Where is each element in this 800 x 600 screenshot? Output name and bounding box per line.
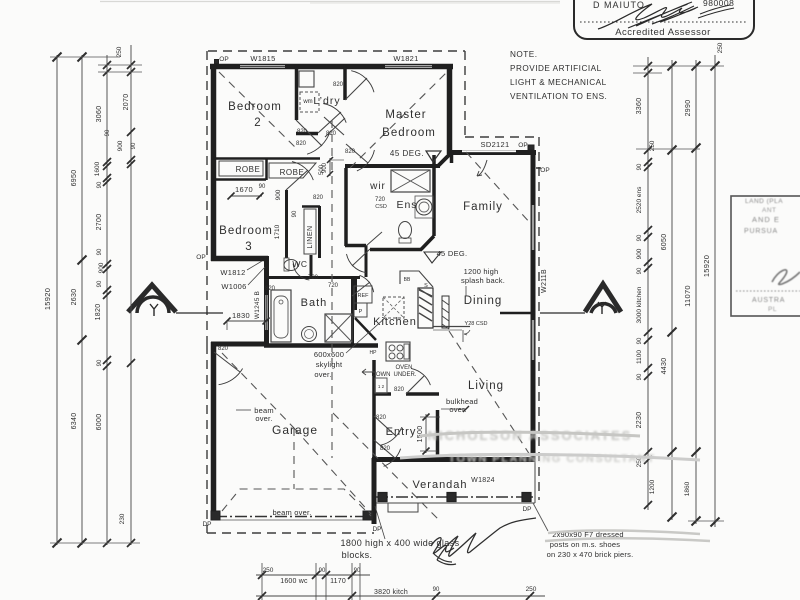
- outer wall garage left: [211, 342, 217, 519]
- svg-text:980008: 980008: [703, 0, 734, 8]
- svg-text:W1245 B: W1245 B: [254, 291, 261, 319]
- stamp dotted line: [580, 21, 748, 23]
- roof overhang dashed outline right side: [538, 137, 540, 500]
- outer wall garage top: [211, 342, 268, 347]
- verandah slab edge: [376, 502, 535, 504]
- svg-text:820: 820: [333, 82, 344, 88]
- door wir leaf: [366, 232, 382, 246]
- svg-text:1500: 1500: [417, 426, 424, 443]
- garage bottom beam-over dash-dot line: [215, 516, 372, 518]
- svg-text:6000: 6000: [96, 414, 103, 431]
- outer wall living bottom: [372, 457, 535, 462]
- svg-text:SD2121: SD2121: [481, 140, 510, 149]
- svg-text:45 DEG.: 45 DEG.: [390, 149, 424, 158]
- svg-text:820: 820: [380, 446, 391, 452]
- svg-text:90: 90: [637, 234, 643, 241]
- svg-text:OVEN: OVEN: [395, 365, 412, 371]
- right dimension line R1 fine dims: [647, 57, 649, 510]
- svg-text:PROVIDE ARTIFICIAL: PROVIDE ARTIFICIAL: [510, 64, 602, 73]
- robe row top wall: [215, 157, 320, 160]
- hip dashed entry-verandah diagonal: [333, 413, 438, 519]
- svg-text:1200 high: 1200 high: [464, 267, 499, 276]
- robe row bottom wall: [215, 178, 266, 181]
- svg-text:2990: 2990: [685, 100, 692, 117]
- svg-text:820: 820: [345, 149, 356, 155]
- dim 1830 recess: [227, 320, 268, 322]
- svg-text:over.: over.: [314, 370, 331, 379]
- svg-text:90: 90: [97, 248, 103, 255]
- ens toilet: [399, 222, 412, 239]
- robe divider: [265, 158, 268, 180]
- kitchen bench diagonal corner: [355, 318, 376, 340]
- glass blocks leader line: [375, 506, 385, 539]
- svg-text:W1824: W1824: [471, 477, 495, 484]
- wall ldry / master divider: [343, 64, 347, 100]
- svg-text:Accredited Assessor: Accredited Assessor: [615, 27, 711, 38]
- svg-text:PURSUA: PURSUA: [744, 228, 778, 235]
- right dims extension lines: [633, 65, 724, 67]
- bottom dimension vertical witness lines: [261, 563, 263, 600]
- ldry tub: [299, 71, 314, 87]
- svg-text:ANT: ANT: [762, 207, 777, 214]
- kitchen bench top with REF recess: [354, 286, 372, 303]
- right dimension line R2: [671, 60, 673, 520]
- svg-text:1100: 1100: [636, 350, 643, 364]
- roof pitch arrow Y right: [540, 284, 621, 314]
- ridge dashed hall vertical: [331, 120, 333, 458]
- svg-text:Living: Living: [468, 380, 504, 392]
- svg-text:NOTE.: NOTE.: [510, 50, 538, 59]
- svg-text:Bedroom: Bedroom: [382, 127, 436, 139]
- svg-text:AUSTRA: AUSTRA: [752, 297, 785, 304]
- svg-text:DOWN: DOWN: [372, 372, 391, 378]
- svg-text:900: 900: [98, 262, 105, 273]
- svg-text:1170: 1170: [330, 578, 346, 585]
- svg-text:6050: 6050: [661, 234, 668, 251]
- wall master bottom / wir top: [345, 164, 440, 168]
- faded watermark stamp line 1: [428, 428, 656, 465]
- svg-text:15920: 15920: [43, 288, 52, 310]
- roof overhang dashed outline above family: [465, 136, 536, 138]
- kitchen bottom wall to entry: [374, 392, 391, 396]
- svg-text:S: S: [424, 283, 428, 289]
- linen cupboard walls: [302, 205, 320, 208]
- svg-text:ROBE: ROBE: [280, 168, 305, 177]
- svg-text:AND E: AND E: [752, 215, 780, 224]
- hip dashed garage diagonal lower: [294, 428, 371, 514]
- ridge dashed garage vertical: [293, 428, 295, 489]
- garage corner post bottom-left: [211, 511, 220, 520]
- ens east wall: [432, 155, 436, 236]
- svg-text:splash back.: splash back.: [461, 276, 505, 285]
- svg-text:Bath: Bath: [301, 297, 328, 309]
- outer wall left upper: [211, 64, 217, 261]
- wall hall / bath-kitchen y277: [311, 276, 360, 279]
- svg-text:90: 90: [105, 129, 111, 136]
- wall wc east: [310, 255, 313, 278]
- svg-text:90: 90: [354, 568, 361, 574]
- svg-text:1860: 1860: [684, 481, 691, 496]
- svg-text:500: 500: [319, 164, 325, 175]
- svg-text:2070: 2070: [123, 94, 130, 111]
- outer wall top (bedroom2 / ldry / master): [210, 64, 453, 70]
- bath tub: [271, 290, 291, 342]
- svg-text:on 230 x 470 brick piers.: on 230 x 470 brick piers.: [547, 550, 634, 559]
- faint cut-off drawing remnant at top edge: [100, 1, 560, 3]
- outer wall bedroom3 bottom: [211, 256, 268, 262]
- hip dashed master bedroom diagonal: [350, 71, 448, 168]
- svg-text:2700: 2700: [96, 214, 103, 231]
- left dimension line L3: [106, 55, 108, 545]
- svg-text:Master: Master: [385, 109, 426, 121]
- window W1815 glazing line on top wall: [240, 65, 285, 67]
- ens basin: [416, 199, 432, 215]
- hip dashed dining-living diagonal: [449, 331, 530, 455]
- ens 45 deg corner wall: [421, 236, 434, 250]
- roof overhang dashed outline left garage: [206, 345, 208, 533]
- svg-text:250: 250: [263, 567, 274, 574]
- entry east wall / living divider: [436, 410, 440, 462]
- verandah roof edge diagonal to note text: [533, 503, 548, 531]
- door dining csd leaf: [462, 330, 464, 342]
- svg-text:90: 90: [433, 587, 440, 593]
- robe1 box: [219, 161, 263, 176]
- svg-text:2: 2: [254, 117, 261, 129]
- door kitchen-entry leaf: [406, 376, 424, 394]
- svg-text:Family: Family: [463, 201, 503, 213]
- svg-text:250: 250: [649, 140, 656, 151]
- svg-text:90: 90: [637, 373, 643, 380]
- svg-text:1 2: 1 2: [378, 384, 385, 389]
- svg-text:Kitchen: Kitchen: [373, 316, 417, 328]
- entry west wall upper: [372, 360, 376, 462]
- svg-text:90: 90: [97, 359, 103, 366]
- svg-text:W1006: W1006: [221, 282, 246, 291]
- window W1245 glazing on bath west wall: [266, 295, 268, 330]
- svg-text:Ens: Ens: [396, 199, 417, 211]
- garage dashed ceiling trapezoid: [222, 489, 371, 516]
- wc toilet: [284, 260, 298, 271]
- wall bath/kitchen bottom: [264, 343, 378, 348]
- svg-text:820: 820: [394, 387, 405, 393]
- svg-text:DP: DP: [372, 526, 381, 533]
- roof overhang dashed outline top: [208, 50, 465, 52]
- svg-text:900: 900: [275, 189, 282, 200]
- svg-text:LIGHT & MECHANICAL: LIGHT & MECHANICAL: [510, 78, 607, 87]
- ldry washing machine dashed box: [300, 92, 319, 112]
- door bath swing: [352, 282, 370, 296]
- right dimension line R3: [695, 60, 697, 524]
- svg-text:VENTILATION TO ENS.: VENTILATION TO ENS.: [510, 92, 607, 101]
- svg-text:W1812: W1812: [220, 268, 245, 277]
- wir L wall bottom: [345, 244, 366, 248]
- small pantry box left of oven note: [375, 378, 387, 393]
- faded watermark strikethrough scribbles: [420, 432, 640, 436]
- svg-text:wir: wir: [369, 181, 386, 192]
- svg-text:2520 ens: 2520 ens: [636, 186, 643, 213]
- ens shower box: [391, 170, 430, 192]
- linen box: [304, 209, 316, 254]
- bath shower box: [325, 314, 352, 342]
- svg-text:WC: WC: [292, 259, 307, 269]
- roof pitch arrow Y left: [128, 285, 223, 316]
- svg-text:L’dry: L’dry: [313, 95, 340, 107]
- outer wall family top with sliding door SD2121: [447, 150, 536, 155]
- svg-text:Verandah: Verandah: [412, 479, 467, 491]
- certification stamp box right edge: [731, 196, 800, 316]
- kitchen skylight dashed square: [383, 297, 404, 318]
- svg-text:230: 230: [119, 513, 126, 524]
- accredited assessor stamp box: [574, 0, 754, 39]
- svg-text:LINEN: LINEN: [307, 225, 314, 248]
- svg-text:posts on m.s. shoes: posts on m.s. shoes: [550, 540, 621, 549]
- svg-text:820: 820: [313, 195, 324, 201]
- svg-text:720: 720: [375, 197, 386, 203]
- kitchen east bench / sink unit hatched: [418, 288, 433, 328]
- hip dashed garage diagonal upper: [222, 353, 294, 428]
- svg-text:90: 90: [637, 337, 643, 344]
- svg-text:820: 820: [297, 129, 308, 135]
- svg-text:DP: DP: [522, 506, 531, 513]
- svg-text:90: 90: [131, 142, 137, 149]
- robe2 box with angled end: [269, 163, 316, 178]
- entry west glass block wall: [372, 458, 377, 524]
- ens bottom wall: [370, 248, 422, 252]
- wall bath east: [351, 277, 354, 345]
- svg-text:ROBE: ROBE: [236, 165, 261, 174]
- outer wall master bedroom right: [447, 64, 453, 154]
- svg-text:820: 820: [218, 346, 229, 352]
- svg-text:1600: 1600: [94, 161, 101, 176]
- wall family west below ens: [450, 152, 454, 163]
- door bedroom2 leaf and arc: [296, 120, 322, 146]
- svg-text:250: 250: [526, 586, 537, 593]
- wall master 45 deg corner: [438, 153, 451, 166]
- kitchen bench return to dining: [433, 326, 470, 328]
- outer wall right side (family / dining / living) with window W2118: [531, 150, 536, 462]
- svg-text:1200: 1200: [649, 479, 656, 494]
- wir L wall vertical: [344, 168, 348, 246]
- verandah post middle: [447, 493, 456, 502]
- svg-text:W1815: W1815: [250, 54, 275, 63]
- svg-text:W211B: W211B: [541, 269, 548, 293]
- svg-text:4430: 4430: [661, 358, 668, 375]
- svg-text:Bedroom: Bedroom: [219, 225, 273, 237]
- svg-text:820: 820: [326, 131, 337, 137]
- svg-text:blocks.: blocks.: [342, 550, 373, 560]
- svg-text:beam over.: beam over.: [272, 508, 311, 517]
- verandah post left: [378, 493, 387, 502]
- family SD2121 corner OP square: [528, 145, 534, 150]
- roof overhang dashed outline left: [206, 51, 208, 345]
- svg-text:Y28 CSD: Y28 CSD: [465, 321, 488, 327]
- svg-text:CSD: CSD: [375, 204, 387, 210]
- kitchen pantry box: [354, 303, 367, 317]
- verandah steps: [388, 503, 418, 512]
- roof overhang dashed outline right of master bedroom: [464, 51, 466, 137]
- svg-text:600x600: 600x600: [314, 350, 344, 359]
- svg-text:2230: 2230: [636, 412, 643, 429]
- svg-text:skylight: skylight: [316, 360, 343, 369]
- roof overhang dashed outline garage bottom: [207, 532, 374, 534]
- right dimension line R4 overall: [714, 55, 716, 527]
- bath basin: [302, 327, 317, 342]
- svg-text:DP: DP: [202, 521, 211, 528]
- svg-text:250: 250: [116, 46, 123, 57]
- svg-text:1830: 1830: [232, 311, 250, 320]
- svg-text:820: 820: [376, 415, 387, 421]
- svg-text:REF: REF: [358, 293, 370, 299]
- door entry to living leaf: [374, 440, 395, 458]
- svg-text:OP: OP: [540, 167, 549, 174]
- verandah right edge line: [534, 460, 536, 503]
- door garage rear leaf: [214, 352, 240, 372]
- svg-text:OP: OP: [219, 56, 228, 63]
- left dimension line L4: [130, 45, 132, 545]
- svg-text:3060: 3060: [96, 106, 103, 123]
- svg-text:HP: HP: [370, 350, 378, 356]
- svg-text:250: 250: [717, 42, 724, 53]
- svg-text:OP: OP: [518, 142, 527, 149]
- svg-text:90: 90: [637, 267, 643, 274]
- svg-text:over.: over.: [255, 414, 272, 423]
- left dims top extension lines: [50, 56, 120, 58]
- svg-text:90: 90: [292, 210, 298, 217]
- door bedroom3 leaf: [286, 170, 308, 190]
- svg-text:BB: BB: [404, 277, 411, 283]
- svg-text:D MAIUTO: D MAIUTO: [593, 0, 645, 10]
- svg-text:wm: wm: [302, 99, 312, 105]
- dining nib wall from right wall: [500, 312, 535, 315]
- svg-text:over.: over.: [449, 405, 466, 414]
- left dimension line L2: [81, 55, 83, 545]
- svg-text:OP: OP: [196, 254, 205, 261]
- window W1821 glazing line on top wall: [385, 65, 432, 67]
- dim 1670 bed3: [231, 195, 262, 197]
- hall width dim 900: [329, 158, 331, 176]
- stamp signature scribble: [598, 2, 698, 29]
- svg-text:720: 720: [308, 275, 319, 281]
- svg-text:11070: 11070: [683, 285, 692, 307]
- door wc swing: [293, 264, 309, 280]
- door entry front leaf: [374, 416, 396, 436]
- svg-text:820: 820: [296, 141, 307, 147]
- svg-text:90: 90: [319, 568, 326, 574]
- svg-text:Bedroom: Bedroom: [228, 101, 282, 113]
- svg-text:1710: 1710: [274, 224, 281, 239]
- door master leaf: [346, 144, 368, 163]
- wall bedroom2 / ldry divider: [295, 64, 299, 120]
- certification stamp dotted line: [736, 290, 800, 292]
- hip dashed family diagonal: [466, 152, 531, 224]
- svg-text:3: 3: [245, 241, 252, 253]
- svg-text:720: 720: [328, 283, 339, 289]
- svg-text:3820 kitch: 3820 kitch: [374, 589, 408, 596]
- svg-text:LAND (PLA: LAND (PLA: [745, 198, 783, 205]
- svg-text:1800 high x 400 wide glass: 1800 high x 400 wide glass: [341, 538, 460, 548]
- svg-text:900: 900: [636, 248, 643, 259]
- svg-text:820: 820: [265, 286, 276, 292]
- svg-text:W1821: W1821: [393, 54, 418, 63]
- svg-text:90: 90: [97, 280, 103, 287]
- svg-text:15920: 15920: [702, 255, 711, 277]
- svg-text:3360: 3360: [636, 98, 643, 115]
- wall ldry bottom: [296, 132, 318, 136]
- svg-text:P: P: [359, 309, 363, 315]
- svg-text:3000 kitchen: 3000 kitchen: [636, 286, 643, 323]
- door ens leaf: [352, 249, 370, 266]
- outer wall bath west with window W1245: [264, 256, 269, 345]
- svg-text:90: 90: [637, 163, 643, 170]
- left dimension line L1 overall: [56, 55, 58, 545]
- kitchen west wall: [354, 277, 357, 310]
- garage corner post bottom-right: [363, 511, 373, 520]
- window W2118 glazing on right wall: [532, 205, 534, 250]
- svg-text:1600 wc: 1600 wc: [280, 578, 308, 585]
- svg-text:6340: 6340: [71, 413, 78, 430]
- svg-text:Garage: Garage: [272, 423, 318, 437]
- svg-text:90: 90: [259, 184, 266, 190]
- wall wc/bath divider top: [266, 276, 311, 279]
- door ldry leaf: [318, 112, 341, 133]
- wall wir/ens divider: [365, 246, 368, 278]
- door ldry top arc: [345, 78, 367, 100]
- svg-text:PL: PL: [768, 306, 777, 313]
- verandah post line dash-dot: [376, 496, 535, 498]
- svg-text:UNDER.: UNDER.: [393, 372, 416, 378]
- svg-text:Dining: Dining: [464, 295, 503, 307]
- svg-text:6950: 6950: [71, 170, 78, 187]
- wall bedroom3 east: [285, 190, 288, 258]
- verandah post right: [522, 493, 531, 502]
- svg-text:1670: 1670: [235, 185, 253, 194]
- svg-text:90: 90: [97, 181, 103, 188]
- assessor signature scribble bottom: [437, 518, 536, 560]
- small signature flourish left: [431, 538, 454, 554]
- certification stamp signature: [772, 270, 800, 285]
- label 1500 entry dim: [425, 414, 427, 453]
- svg-text:Entry: Entry: [386, 426, 417, 438]
- hip dashed bedroom2 diagonal: [219, 72, 296, 148]
- kitchen stove hotplate unit: [386, 342, 410, 361]
- certification stamp text lines: [736, 198, 800, 313]
- svg-text:1820: 1820: [95, 304, 102, 321]
- svg-text:900: 900: [117, 140, 124, 151]
- hall crossing door leaves X: [324, 117, 344, 135]
- bottom dimension line row2: [256, 595, 545, 597]
- svg-text:2630: 2630: [71, 289, 78, 306]
- bottom dimension line row1: [256, 574, 370, 576]
- kitchen bench counter outline: [400, 271, 433, 287]
- door family sd arrow hook: [477, 160, 487, 176]
- svg-text:45 DEG.: 45 DEG.: [437, 249, 468, 258]
- splashback bench strip facing dining: [442, 296, 449, 328]
